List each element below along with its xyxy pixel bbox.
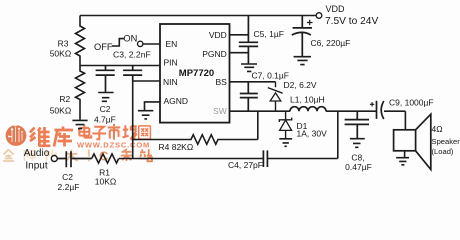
wire EN (143, 43, 160, 45)
wire output node (326, 111, 405, 130)
svg-text:L1, 10µH: L1, 10µH (290, 95, 325, 105)
svg-text:4.7µF: 4.7µF (94, 115, 116, 125)
label C6 220µF (311, 38, 351, 48)
label L1 10µH (290, 95, 325, 105)
switch S1 ON/OFF (112, 39, 143, 47)
label 4Ω Speaker Load (432, 124, 460, 156)
svg-text:C4, 27pF: C4, 27pF (228, 160, 263, 170)
capacitor C9 1000µF (370, 101, 384, 119)
speaker LS1 (394, 114, 431, 169)
capacitor C2 4.7µF (96, 66, 115, 92)
capacitor C4 27pF (263, 150, 267, 167)
wire PGND pin stub (230, 52, 249, 54)
resistor R3 (76, 16, 85, 66)
wire SW node (230, 110, 291, 112)
svg-text:MP7720: MP7720 (179, 68, 214, 79)
watermark logo (6, 124, 27, 146)
svg-text:VDD: VDD (326, 4, 346, 14)
svg-text:7.5V to 24V: 7.5V to 24V (325, 16, 378, 27)
label Audio Input (24, 148, 50, 171)
label pin PIN (164, 58, 178, 68)
svg-text:R4 82KΩ: R4 82KΩ (159, 142, 194, 152)
watermark text 电子市场网 (79, 124, 150, 140)
svg-text:4Ω: 4Ω (432, 124, 443, 134)
svg-text:C2: C2 (100, 104, 111, 114)
svg-text:C3, 2.2nF: C3, 2.2nF (113, 50, 151, 60)
svg-text:WWW.DZSC.COM: WWW.DZSC.COM (77, 140, 150, 149)
label ON (123, 34, 137, 44)
svg-text:SW: SW (213, 106, 227, 116)
label C2 2.2µF (58, 172, 80, 192)
resistor R2 (76, 66, 85, 120)
label pin PGND (202, 49, 227, 59)
label pin VDD (209, 30, 227, 40)
zener D2 (268, 82, 283, 111)
ground D1 (279, 139, 292, 147)
svg-text:AGND: AGND (164, 96, 189, 106)
capacitor C6 220µF (292, 16, 313, 57)
watermark url (77, 140, 150, 149)
svg-text:C7, 0.1µF: C7, 0.1µF (252, 71, 290, 81)
label D2 6.2V (284, 80, 317, 90)
label VDD supply (325, 4, 378, 27)
audio input terminal (51, 156, 57, 162)
diode D1 (279, 111, 291, 138)
label R1 10KΩ (95, 167, 116, 186)
op-amp U1 MP7720 (160, 24, 230, 123)
wire VDD rail (80, 15, 316, 17)
label pin AGND (164, 96, 189, 106)
resistor R1 (92, 154, 119, 163)
svg-text:D2, 6.2V: D2, 6.2V (284, 80, 317, 90)
svg-text:R3: R3 (58, 38, 69, 48)
capacitor C2 input 2.2µF (58, 151, 92, 167)
label C9 1000µF (389, 98, 434, 108)
svg-text:Audio: Audio (24, 148, 50, 159)
capacitor C5 (239, 16, 258, 64)
svg-text:0.47µF: 0.47µF (345, 162, 372, 172)
ground C5 (241, 64, 257, 71)
label C4 27pF (228, 160, 263, 170)
svg-text:NIN: NIN (163, 77, 178, 87)
ground C6 (294, 57, 311, 65)
label C8 0.47µF (345, 153, 372, 173)
capacitor C8 0.47µF (345, 111, 369, 138)
VDD terminal (316, 13, 322, 19)
svg-text:1A, 30V: 1A, 30V (297, 128, 328, 138)
label C7 0.1µF (252, 71, 290, 81)
svg-text:C6, 220µF: C6, 220µF (311, 38, 351, 48)
svg-text:50KΩ: 50KΩ (50, 48, 71, 58)
ground C2 (98, 93, 113, 102)
label OFF (94, 42, 113, 52)
label R4 82KΩ (159, 142, 194, 152)
inductor L1 (290, 107, 326, 112)
label pin BS (215, 77, 227, 87)
wire C4 to output (267, 111, 337, 158)
label U1 MP7720 (179, 68, 214, 79)
svg-text:OFF: OFF (94, 42, 113, 52)
label C2 4.7µF (94, 104, 116, 125)
label R2 50KΩ (50, 94, 71, 116)
label C3 2.2nF (113, 50, 151, 60)
svg-text:R2: R2 (59, 94, 70, 104)
label pin EN (166, 39, 178, 49)
svg-text:ON: ON (123, 34, 137, 44)
ground C8 (350, 139, 365, 148)
svg-text:Input: Input (25, 161, 47, 172)
svg-text:VDD: VDD (209, 30, 227, 40)
label C5 1µF (254, 29, 284, 39)
svg-text:Speaker: Speaker (432, 137, 460, 146)
svg-text:2.2µF: 2.2µF (58, 182, 80, 192)
watermark text 维库 (30, 127, 73, 147)
label R3 50KΩ (50, 38, 71, 58)
svg-text:C9, 1000µF: C9, 1000µF (389, 98, 434, 108)
svg-text:(Load): (Load) (432, 147, 454, 156)
capacitor C7 (240, 82, 258, 111)
svg-text:50KΩ: 50KΩ (50, 106, 71, 116)
ground R2 (72, 120, 87, 128)
svg-text:C2: C2 (62, 172, 73, 182)
svg-text:C5, 1µF: C5, 1µF (254, 29, 284, 39)
svg-text:PGND: PGND (202, 49, 227, 59)
label D1 1A 30V (297, 121, 328, 138)
wire VDD pin stub (230, 34, 249, 36)
wire BS node (230, 81, 276, 83)
capacitor C3 (123, 66, 142, 82)
wire NIN to C4 (119, 158, 263, 160)
ground AGND (138, 102, 160, 119)
label pin NIN (163, 77, 178, 87)
svg-text:C8,: C8, (351, 153, 364, 163)
svg-text:EN: EN (166, 39, 178, 49)
svg-text:PIN: PIN (164, 58, 178, 68)
svg-text:BS: BS (215, 77, 227, 87)
watermark slogan row (3, 149, 152, 164)
ground speaker (396, 158, 409, 165)
wire NIN node (133, 81, 160, 159)
resistor R4 (133, 111, 258, 144)
label pin SW (213, 106, 227, 116)
wire PIN node (80, 65, 160, 67)
svg-text:10KΩ: 10KΩ (95, 176, 116, 186)
